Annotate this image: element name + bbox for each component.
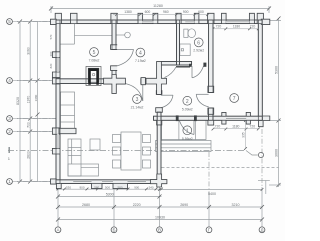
В upper wall	[157, 62, 161, 92]
bottom dim rows	[56, 188, 162, 190]
door room6	[191, 66, 193, 78]
log end tab, top wall at axis Б	[111, 13, 117, 23]
log end stub, south wall at axis B	[157, 121, 162, 125]
В lower wall	[157, 112, 161, 184]
svg-text:5.09м2: 5.09м2	[182, 107, 193, 111]
svg-text:900: 900	[183, 10, 189, 14]
svg-text:1680: 1680	[34, 94, 38, 101]
sink room6	[180, 44, 190, 56]
right wall	[258, 20, 262, 121]
log end tab, left wall at axis 4	[52, 78, 59, 84]
row4 wall pier	[141, 79, 157, 84]
svg-text:960: 960	[163, 10, 169, 14]
room6 left wall	[177, 20, 180, 65]
Б wall top part	[112, 20, 116, 49]
log end stub, south wall at axis Г	[208, 121, 214, 126]
svg-text:600: 600	[145, 10, 151, 14]
svg-text:2690: 2690	[180, 203, 188, 207]
svg-text:3: 3	[8, 116, 11, 121]
log cross, axis B / bottom wall junction	[150, 174, 167, 187]
svg-text:3060: 3060	[26, 47, 30, 55]
top total dim line	[51, 8, 269, 10]
svg-text:10930: 10930	[155, 215, 165, 219]
log end tab, left wall window W4 top pier	[52, 52, 59, 58]
log end tab, left wall at axis 2	[52, 128, 59, 134]
svg-text:В: В	[158, 228, 161, 233]
svg-text:2: 2	[8, 129, 11, 134]
window dim slashes row y189	[57, 188, 163, 191]
svg-text:720: 720	[250, 25, 256, 29]
log end stub, corner A/1 left	[51, 179, 57, 184]
svg-text:935: 935	[241, 132, 245, 138]
svg-text:900: 900	[79, 186, 84, 190]
svg-text:720: 720	[215, 125, 221, 129]
top wall windows	[142, 21, 154, 23]
log end tab, top wall x71	[71, 13, 78, 23]
log crosses (clean plus overlays)	[104, 62, 167, 188]
Г wall upper	[209, 20, 213, 93]
left wall	[56, 20, 60, 184]
svg-text:11280: 11280	[153, 4, 163, 8]
log end tab, top wall window W2 right pier	[194, 13, 199, 23]
svg-text:5300: 5300	[106, 193, 114, 197]
log end tab, left wall window W4 bottom pier	[52, 72, 59, 78]
svg-text:540: 540	[149, 186, 154, 190]
right dim line	[278, 19, 280, 188]
room7 dim slashes	[212, 27, 260, 149]
svg-text:1: 1	[186, 128, 189, 134]
dining table	[121, 132, 141, 170]
svg-text:700: 700	[26, 122, 30, 128]
svg-text:580: 580	[117, 186, 122, 190]
porch steps	[156, 141, 212, 152]
room6 bottom wall	[157, 62, 191, 66]
svg-text:Б: Б	[112, 228, 115, 233]
svg-text:720: 720	[249, 125, 255, 129]
svg-text:5300: 5300	[274, 66, 278, 74]
porch rect below vestibule	[162, 121, 207, 140]
log end tab, south window W6 left pier lower	[222, 121, 226, 125]
wall stub at axis 2 from left wall	[59, 128, 76, 133]
log end stub, corner A/5 left	[51, 19, 57, 24]
row4 wall А to opening	[56, 79, 125, 84]
log end tab, top wall window W3 left pier	[222, 13, 227, 23]
svg-text:8320: 8320	[16, 97, 20, 105]
log end tab, top wall at axis Г	[208, 13, 214, 23]
Б wall bottom part	[112, 66, 116, 84]
toilet room6	[184, 29, 188, 37]
door jamb, axis B door top	[156, 91, 162, 95]
log end stub, corner A/1 bottom	[56, 183, 61, 189]
svg-text:5400: 5400	[208, 192, 216, 196]
grid dash-dot lines left	[13, 22, 262, 194]
terrace dashed outline	[162, 167, 279, 169]
svg-text:3: 3	[136, 97, 139, 103]
log end pier, bottom wall pier 2	[113, 183, 128, 188]
svg-text:820: 820	[49, 63, 53, 68]
door jamb tab, row-4 wall opening right	[141, 78, 145, 85]
bottom grid extension verticals	[57, 187, 59, 222]
svg-text:5.56м2: 5.56м2	[182, 137, 193, 141]
door row4 wall into living room	[142, 84, 144, 102]
washbasin room4 circle	[116, 34, 125, 36]
chairs right	[143, 135, 151, 143]
svg-text:7.19м2: 7.19м2	[135, 59, 146, 63]
log end pier, bottom wall pier 1	[92, 183, 103, 188]
svg-text:1970: 1970	[26, 96, 30, 104]
svg-text:7: 7	[233, 96, 236, 102]
svg-text:7.08м2: 7.08м2	[89, 59, 100, 63]
bottom wall left part	[56, 180, 162, 184]
svg-text:2220: 2220	[133, 203, 141, 207]
section line 1-1	[8, 147, 258, 155]
svg-text:600: 600	[198, 10, 204, 14]
svg-text:1380: 1380	[124, 10, 132, 14]
log cross, axis B / row-4 junction	[146, 62, 167, 95]
svg-text:3000: 3000	[274, 149, 278, 157]
coffee table	[90, 139, 100, 150]
section mark circle right	[258, 152, 263, 157]
bench room5	[74, 24, 76, 44]
log end tab, top wall window W1 right pier	[153, 13, 158, 23]
svg-text:580: 580	[94, 186, 99, 190]
south wall right wing	[154, 116, 263, 120]
svg-text:6: 6	[197, 40, 200, 46]
log end tab, top wall at room6 wall	[176, 13, 181, 23]
log end tab, south window W6 right pier upper	[246, 112, 250, 116]
log end tab, top wall at corner Д/5	[257, 13, 263, 23]
wall outline overdraw for junction lines	[56, 20, 262, 184]
door jamb tab, axis Б door top	[111, 45, 118, 50]
svg-text:900: 900	[134, 186, 139, 190]
svg-text:570: 570	[49, 34, 53, 39]
vestibule entry door	[193, 121, 195, 135]
log cross, axis Б / row-4 junction	[104, 75, 126, 94]
door room2-room7 at Г wall	[196, 93, 208, 95]
slashes bottom rows	[56, 195, 60, 199]
svg-text:2: 2	[186, 99, 189, 105]
svg-text:5: 5	[8, 19, 11, 24]
svg-text:1: 1	[8, 179, 11, 184]
left wall windows	[57, 58, 59, 72]
door jamb, axis Г door bottom	[208, 108, 214, 114]
log end tab, top wall window W1 left pier	[138, 13, 143, 23]
Г wall lower	[209, 108, 213, 120]
door room5-room4 at Б wall	[116, 48, 134, 50]
left dim col mid	[29, 22, 31, 182]
L-sofa	[68, 139, 81, 176]
left dim col outer 8320	[19, 22, 21, 182]
svg-text:2.92м2: 2.92м2	[193, 49, 204, 53]
log end stub, corner Д/5 right	[261, 19, 270, 24]
log end tab, top wall window W3 right pier	[249, 13, 254, 23]
bottom wall windows	[73, 181, 91, 183]
south wall window room7	[226, 117, 246, 119]
svg-text:21.14м2: 21.14м2	[131, 106, 144, 110]
svg-text:3210: 3210	[232, 203, 240, 207]
door jamb tab, axis Б door bottom	[111, 66, 118, 71]
log end stub, corner Д/3 right	[263, 116, 270, 121]
svg-text:720: 720	[216, 25, 222, 29]
svg-text:5: 5	[93, 50, 96, 56]
door jamb, axis B door bottom	[156, 108, 163, 113]
svg-text:300: 300	[49, 51, 53, 56]
top wall	[56, 20, 262, 24]
chairs left	[113, 135, 121, 143]
door jamb, axis Г door top	[208, 86, 214, 92]
svg-text:4: 4	[139, 51, 142, 57]
left dim extension horizontals	[17, 21, 56, 23]
door living-room2 at В wall	[161, 94, 173, 96]
log end tab, south window W6 left pier upper	[222, 112, 226, 116]
log end tab, south window W6 right pier lower	[246, 121, 250, 125]
svg-text:500: 500	[105, 186, 110, 190]
svg-text:2600: 2600	[26, 151, 30, 159]
entry door jambs (dark)	[176, 63, 207, 122]
5400 dim right end extension	[265, 181, 267, 195]
svg-text:1180: 1180	[232, 125, 239, 129]
door room4 lower	[176, 66, 190, 68]
svg-text:530: 530	[66, 186, 71, 190]
log end tab, left wall window W5 bottom pier	[52, 148, 59, 154]
left vertical dim texts	[16, 34, 278, 159]
kitchen unit left wall	[61, 92, 75, 129]
log end stub, corner Д/3 bottom	[259, 121, 264, 127]
svg-text:2680: 2680	[82, 203, 90, 207]
svg-text:1180: 1180	[233, 25, 240, 29]
svg-text:4: 4	[8, 78, 11, 83]
log end tab, top wall at corner A/5	[55, 13, 61, 23]
